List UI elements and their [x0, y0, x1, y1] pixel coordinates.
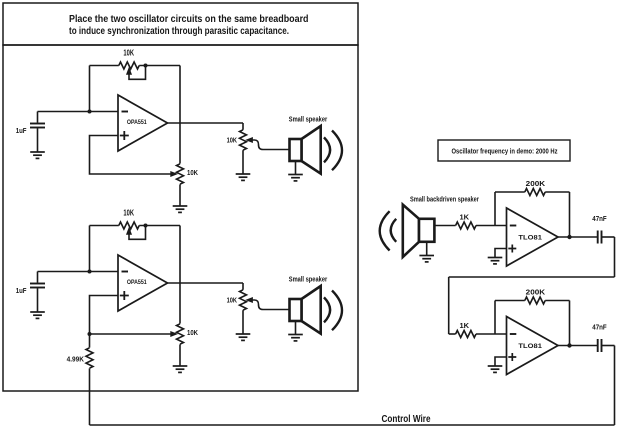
- wire output U2: [168, 282, 244, 284]
- wire output U1: [168, 122, 244, 124]
- wire feedback left vertical: [494, 192, 496, 226]
- op-amp TL081: [507, 317, 559, 375]
- svg-text:Place the two oscillator circu: Place the two oscillator circuits on the…: [69, 14, 309, 25]
- wire speaker to ground: [295, 161, 297, 175]
- ground below speaker SP2: [288, 335, 303, 341]
- wire non-inverting loop: [90, 296, 172, 335]
- ground below speaker SP1: [288, 175, 303, 181]
- svg-text:10K: 10K: [187, 328, 199, 337]
- resistor 1K input: [456, 331, 507, 338]
- wire feedback right vertical: [179, 226, 181, 284]
- junction output node: [567, 235, 571, 239]
- potentiometer 10K divider (vertical): [177, 283, 184, 366]
- wire feedback left vertical: [89, 66, 91, 112]
- junction inverting input node: [88, 110, 92, 114]
- resistor 200K feedback: [495, 297, 570, 304]
- junction wiper node U1: [144, 64, 148, 68]
- resistor 200K feedback: [495, 189, 570, 196]
- speaker SP3 small backdriven speaker: [403, 205, 435, 257]
- wire feedback right vertical: [569, 301, 571, 346]
- svg-text:4.99K: 4.99K: [67, 355, 85, 364]
- svg-text:47nF: 47nF: [592, 214, 607, 223]
- wire SP3 to ground: [426, 242, 428, 256]
- wiper arrow into divider pot: [171, 332, 177, 337]
- sound waves SP2: [324, 291, 342, 331]
- ground below C2: [30, 312, 45, 318]
- note box: [3, 3, 358, 45]
- sound waves SP3: [380, 211, 397, 250]
- junction inverting input node: [88, 270, 92, 274]
- svg-text:10K: 10K: [227, 295, 238, 304]
- wire wiper to speaker: [252, 300, 290, 310]
- speaker SP2 small speaker: [290, 286, 321, 334]
- wire rail right vertical (U3 out to U4 in): [614, 237, 616, 277]
- wire inverting input: [38, 111, 119, 113]
- op-amp U1 OPA551: [118, 95, 168, 151]
- svg-text:1K: 1K: [460, 321, 470, 330]
- wire capacitor to rail: [602, 236, 615, 238]
- capacitor 47nF: [598, 231, 602, 244]
- junction wiper node U2: [144, 224, 148, 228]
- potentiometer 10K divider (vertical): [177, 123, 184, 206]
- capacitor 1uF C1: [30, 112, 45, 153]
- wire output: [558, 236, 597, 238]
- svg-text:10K: 10K: [123, 47, 134, 57]
- wire feedback top left: [90, 225, 119, 227]
- wire feedback left vertical: [494, 301, 496, 335]
- wire rail horizontal: [449, 276, 615, 278]
- wire rail left vertical down to 1K: [448, 277, 450, 334]
- svg-text:OPA551: OPA551: [127, 119, 147, 126]
- wire non-inverting to ground: [495, 357, 507, 366]
- svg-text:Control Wire: Control Wire: [382, 414, 431, 425]
- wire feedback top right: [139, 225, 180, 227]
- capacitor 47nF: [598, 339, 602, 352]
- junction output node: [567, 343, 571, 347]
- svg-text:1K: 1K: [460, 213, 470, 222]
- svg-text:47nF: 47nF: [592, 323, 607, 332]
- wire feedback right vertical: [179, 66, 181, 124]
- op-amp TL081: [507, 208, 559, 266]
- svg-text:1uF: 1uF: [16, 126, 27, 135]
- resistor 1K input: [456, 222, 507, 229]
- wire non-inverting loop: [90, 136, 172, 175]
- sound waves SP1: [324, 131, 342, 171]
- wire output: [558, 345, 597, 347]
- svg-text:10K: 10K: [187, 168, 199, 177]
- ground below SP3: [419, 256, 434, 262]
- ground below volume pot: [236, 334, 251, 340]
- ground below C1: [30, 152, 45, 158]
- svg-text:Small backdriven speaker: Small backdriven speaker: [410, 195, 479, 204]
- ground below divider pot: [173, 206, 188, 212]
- wire U4 output down to control wire: [614, 346, 616, 426]
- junction non-inverting node osc2: [88, 332, 92, 336]
- wire control wire horizontal: [90, 424, 615, 426]
- potentiometer 10K feedback U2: [119, 222, 146, 239]
- svg-text:Small speaker: Small speaker: [289, 115, 328, 124]
- potentiometer 10K feedback U1: [119, 62, 146, 79]
- potentiometer 10K volume (vertical): [240, 283, 247, 334]
- svg-text:10K: 10K: [123, 207, 134, 217]
- wiper arrow volume pot: [247, 298, 253, 303]
- wire non-inverting to ground: [495, 249, 507, 258]
- wire wiper to speaker: [252, 140, 290, 150]
- main enclosure box: [3, 45, 358, 391]
- wire into bottom 1K: [449, 333, 456, 335]
- potentiometer 10K volume (vertical): [240, 123, 247, 174]
- svg-text:1uF: 1uF: [16, 286, 27, 295]
- wire feedback right vertical: [569, 192, 571, 237]
- resistor 4.99K: [86, 334, 93, 425]
- op-amp U2 OPA551: [118, 255, 168, 311]
- svg-text:to induce synchronization thro: to induce synchronization through parasi…: [69, 26, 289, 37]
- svg-text:200K: 200K: [526, 287, 546, 296]
- frequency note box: [438, 140, 570, 161]
- wiper arrow into divider pot: [171, 172, 177, 177]
- wire feedback top left: [90, 65, 119, 67]
- svg-text:TLO81: TLO81: [518, 343, 542, 350]
- svg-text:OPA551: OPA551: [127, 279, 147, 286]
- svg-text:TLO81: TLO81: [518, 234, 542, 241]
- ground at TL081 + input: [488, 366, 503, 372]
- wire speaker to ground: [295, 321, 297, 335]
- ground at TL081 + input: [488, 258, 503, 264]
- wiper arrow volume pot: [247, 138, 253, 143]
- capacitor 1uF C2: [30, 272, 45, 313]
- ground below volume pot: [236, 174, 251, 180]
- wire feedback top right: [139, 65, 180, 67]
- svg-text:200K: 200K: [526, 179, 546, 188]
- speaker SP1 small speaker: [290, 126, 321, 174]
- svg-text:Oscillator frequency in demo:: Oscillator frequency in demo: 2000 Hz: [452, 147, 558, 156]
- wire capacitor to rail: [602, 345, 615, 347]
- wire inverting input: [38, 271, 119, 273]
- wire feedback left vertical: [89, 226, 91, 272]
- ground below divider pot: [173, 366, 188, 372]
- svg-text:10K: 10K: [227, 135, 238, 144]
- svg-text:Small speaker: Small speaker: [289, 275, 328, 284]
- wire speaker SP3 to 1K: [434, 225, 455, 227]
